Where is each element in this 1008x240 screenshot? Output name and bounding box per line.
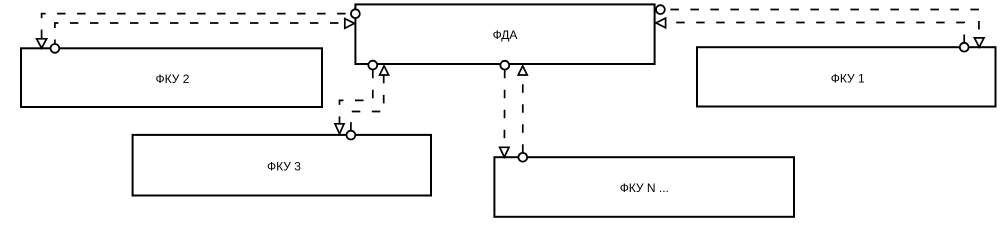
- block FDA (ФДА): [355, 4, 654, 64]
- port circle FKUN top edge: [518, 153, 527, 162]
- port circle FDA top-right corner: [656, 5, 665, 14]
- block FKUN (ФКУ N ...): [494, 157, 794, 217]
- wire FKU3 to FDA (dashed): [351, 75, 384, 130]
- svg-text:ФКУ 3: ФКУ 3: [267, 160, 301, 174]
- wire FDA to FKU1 (dashed): [665, 10, 979, 38]
- wire FDA to FKU2 (dashed): [42, 14, 351, 39]
- wire FKU2 to FDA (dashed): [55, 23, 345, 44]
- arrow into FDA bottom edge left: [380, 66, 389, 75]
- arrow into FDA right edge: [656, 18, 666, 28]
- wire FKU1 to FDA (dashed): [666, 23, 964, 43]
- arrow into FDA bottom edge right: [518, 66, 527, 75]
- arrow into FKU2 top: [37, 39, 47, 48]
- port circle FDA bottom edge right: [500, 61, 509, 70]
- arrow into FKU3 top: [335, 124, 344, 134]
- block FKU1 (ФКУ 1): [697, 47, 996, 106]
- wire FKUN to FDA (dashed): [522, 76, 524, 153]
- port circle FDA left edge: [351, 9, 360, 18]
- wire FDA to FKU3 (dashed): [340, 70, 373, 124]
- arrow into FKU1 top: [974, 38, 984, 47]
- svg-text:ФКУ 2: ФКУ 2: [156, 72, 190, 86]
- block FKU3 (ФКУ 3): [133, 135, 431, 196]
- wire FDA to FKUN (dashed): [503, 70, 505, 147]
- port circle FKU1 top edge: [960, 43, 969, 52]
- arrow into FKUN top: [500, 147, 509, 157]
- block FKU2 (ФКУ 2): [21, 48, 322, 107]
- svg-text:ФКУ N ...: ФКУ N ...: [620, 181, 669, 195]
- svg-text:ФКУ 1: ФКУ 1: [831, 72, 865, 86]
- port circle FKU3 top edge: [347, 131, 356, 140]
- port circle FDA bottom edge left: [368, 61, 377, 70]
- port circle FKU2 top edge: [51, 44, 60, 53]
- arrow into FDA left edge: [345, 19, 355, 29]
- svg-text:ФДА: ФДА: [493, 28, 518, 42]
